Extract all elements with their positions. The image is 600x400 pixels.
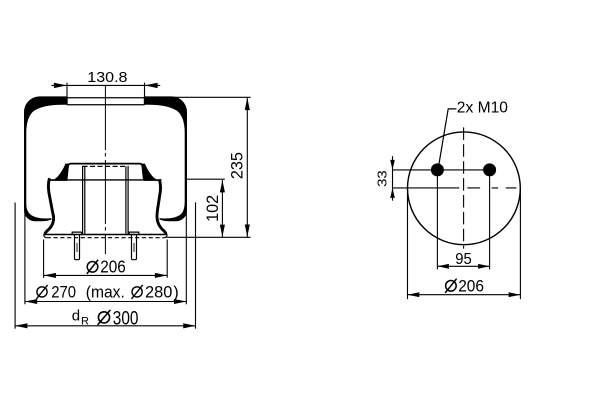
svg-text:33: 33 bbox=[374, 170, 389, 187]
svg-text:R: R bbox=[81, 316, 89, 328]
svg-text:d: d bbox=[72, 307, 80, 324]
svg-text:300: 300 bbox=[113, 307, 139, 329]
svg-text:280: 280 bbox=[145, 283, 172, 301]
svg-text:206: 206 bbox=[458, 277, 484, 296]
svg-text:102: 102 bbox=[204, 195, 222, 222]
svg-text:): ) bbox=[173, 283, 179, 301]
svg-text:2x M10: 2x M10 bbox=[457, 100, 508, 117]
svg-text:(max.: (max. bbox=[86, 283, 125, 301]
svg-text:235: 235 bbox=[229, 152, 247, 179]
svg-text:270: 270 bbox=[51, 283, 76, 301]
svg-text:206: 206 bbox=[100, 256, 126, 276]
svg-text:130.8: 130.8 bbox=[87, 69, 127, 86]
svg-text:95: 95 bbox=[455, 251, 472, 268]
